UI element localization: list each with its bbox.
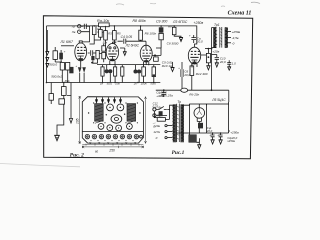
rectifier socket (large oval)	[111, 115, 122, 123]
resistor row R13	[101, 67, 104, 76]
wire R11 leads	[140, 26, 142, 41]
capacitor C3 electrolytic (dark)	[59, 53, 63, 60]
wire anode tube2	[106, 26, 117, 46]
capacitor dark right of tube1	[91, 56, 94, 60]
svg-text:Л1 6Ж7: Л1 6Ж7	[60, 40, 74, 44]
resistor row R14	[114, 67, 117, 76]
ground arrow Сф1	[211, 140, 215, 144]
fuse Пр	[157, 118, 165, 122]
wire lower left bus	[47, 82, 161, 84]
resistor R11v grid	[139, 30, 143, 40]
svg-text:-4,5в: -4,5в	[232, 36, 239, 40]
primary tap 0	[165, 137, 167, 139]
capacitor C4 coupling	[118, 39, 147, 50]
svg-text:R8 400в: R8 400в	[133, 19, 146, 23]
capacitor Сф2	[219, 133, 223, 140]
capacitor Cф50 below bus	[162, 90, 166, 97]
capacitor C1 (input coupling)	[81, 24, 90, 33]
power transformer winding bars (dark)	[173, 104, 177, 142]
svg-text:20,0: 20,0	[183, 73, 190, 77]
wire top supply bus	[47, 26, 197, 47]
primary tap 127в	[165, 131, 167, 133]
svg-text:Схема 11: Схема 11	[228, 11, 252, 17]
wire C9 chain	[160, 26, 162, 34]
svg-text:25к: 25к	[114, 82, 120, 86]
ground arrow pair left rail	[46, 30, 49, 67]
wire R1 leads	[90, 26, 95, 44]
junction heater bus	[163, 89, 165, 91]
screw holes transformer corners	[88, 102, 141, 123]
svg-text:+250в: +250в	[232, 30, 241, 34]
chassis mounting arrows top	[96, 97, 122, 102]
svg-text:+: +	[75, 64, 77, 68]
resistor R19 below C9	[159, 33, 163, 39]
power transformer core	[177, 104, 180, 142]
resistor row R15	[121, 67, 124, 76]
junction dot cluster	[91, 62, 93, 64]
wire R19 lead down	[156, 40, 161, 48]
ground arrow under C10	[215, 63, 219, 67]
svg-text:+: +	[64, 49, 66, 53]
junction right rail	[211, 48, 213, 50]
box divider lower	[59, 99, 65, 104]
junction dot R21 bottom	[208, 56, 210, 58]
tube Л1 top cap	[79, 41, 82, 43]
svg-text:1,0: 1,0	[232, 62, 236, 66]
electrolytic pair A (dark)	[105, 69, 109, 73]
capacitor dark tab on R17	[153, 74, 155, 76]
wire grid feed to tube1 cap	[82, 33, 89, 42]
dimension line bottom (250)	[82, 146, 144, 148]
wire R4 leads	[57, 83, 64, 131]
dimension line left (105)	[79, 96, 81, 143]
capacitor C5 electrolytic (dark)	[69, 67, 73, 73]
output transformer (chassis view, hatched)	[127, 104, 136, 122]
ground arrow right of tube2	[120, 48, 127, 55]
plus marks electrolytics	[64, 33, 220, 137]
resistor R10v	[113, 31, 117, 40]
tube socket A	[107, 104, 114, 111]
wire tap 0	[226, 42, 231, 44]
dial lamp (oval)	[181, 88, 188, 92]
svg-text:105: 105	[76, 118, 80, 124]
svg-text:Rд 20к: Rд 20к	[189, 92, 199, 96]
transformer Тр1 winding bars (dark)	[213, 27, 216, 47]
svg-text:Л3 6П3С: Л3 6П3С	[172, 20, 188, 24]
junction lower left bus	[46, 82, 48, 84]
svg-text:0,25: 0,25	[153, 105, 159, 109]
wire rectifier pins	[197, 118, 201, 122]
wire R20 leads	[174, 26, 181, 37]
junction bus x114	[114, 25, 116, 27]
svg-text:Гр: Гр	[72, 25, 76, 29]
tube Л2 (triode)	[106, 44, 118, 61]
junction bottom rail	[212, 132, 214, 134]
resistor R12 cathode	[190, 66, 194, 76]
switch body dark	[159, 111, 163, 116]
resistor R20 (screen dropper)	[172, 27, 176, 34]
wire choke leads	[190, 133, 200, 142]
power transformer secondary winding	[181, 105, 183, 141]
resistor R7 (plate load, horizontal on bus)	[99, 23, 110, 27]
faint marks right of chassis	[153, 123, 156, 128]
tube Л4 output (6П3С)	[188, 47, 200, 64]
wire C10 top	[212, 54, 217, 56]
svg-text:Пр 0,25а: Пр 0,25а	[161, 94, 174, 98]
junction bus x174	[173, 25, 175, 27]
frame (schematic sheet border)	[43, 16, 252, 159]
svg-text:+250в: +250в	[230, 130, 239, 134]
resistor R21 right of tube4	[206, 53, 210, 62]
junction node right of tube3	[154, 54, 156, 56]
resistor row R17	[152, 67, 156, 77]
chassis outline Рис.2	[82, 97, 143, 143]
transformer Тр1 core	[220, 27, 222, 48]
svg-text:50,0: 50,0	[107, 82, 113, 86]
svg-text:С9 300: С9 300	[156, 20, 167, 24]
wire grid line tube1	[61, 45, 74, 47]
input jack Зв	[78, 30, 81, 33]
svg-text:100к: 100к	[141, 82, 148, 86]
svg-text:R3: R3	[108, 31, 112, 35]
capacitor C9 electrolytic dark (top chain)	[159, 27, 164, 32]
wire into R4 top	[67, 83, 71, 96]
box small between tubes	[96, 50, 99, 58]
wire R21 leads	[201, 49, 209, 66]
wire primary top lead	[167, 105, 174, 119]
ground arrow Сф2	[219, 140, 223, 144]
svg-text:С4 0,05: С4 0,05	[121, 35, 133, 39]
svg-text:220в: 220в	[152, 124, 160, 128]
wire anode rail to transformer	[205, 48, 212, 50]
svg-text:R12 400: R12 400	[196, 72, 208, 76]
wire tube2 bottom to bus	[81, 63, 146, 65]
rectifier tube Л5	[194, 108, 205, 119]
wire tap +250в	[226, 31, 231, 33]
resistor R2a beside R1	[99, 29, 103, 37]
ground arrow under R21	[206, 66, 210, 70]
svg-text:Л2 6Н9С: Л2 6Н9С	[125, 43, 140, 47]
resistor R9 (vertical pair left)	[104, 31, 108, 40]
wire bottom rail	[176, 122, 229, 134]
svg-text:2к: 2к	[133, 82, 138, 86]
apron small holes	[91, 140, 134, 141]
tube socket E	[116, 125, 122, 131]
svg-text:Рис.1: Рис.1	[172, 150, 185, 156]
svg-text:20,0: 20,0	[219, 60, 226, 64]
tube socket D	[107, 125, 113, 131]
wire +250в out	[229, 130, 230, 132]
wire row resistor leads	[103, 65, 154, 83]
svg-text:250: 250	[108, 148, 115, 152]
capacitor C11 between tube1 and tube2	[88, 50, 96, 56]
apron socket row	[85, 134, 142, 138]
pencil smudge top	[116, 3, 225, 6]
tube Л2 pins	[110, 61, 115, 65]
socket spacing dimension row	[82, 144, 143, 146]
junction bus x161	[160, 25, 162, 27]
svg-text:50,0: 50,0	[150, 82, 156, 86]
wire screen node	[55, 47, 67, 74]
transformer Тр1 secondary winding	[225, 27, 227, 47]
svg-text:Рис. 2: Рис. 2	[70, 152, 84, 158]
resistor row R16	[142, 67, 146, 76]
wire mains to fuse	[154, 111, 169, 119]
chassis apron line	[82, 130, 143, 132]
tube socket C	[98, 124, 104, 130]
wire R5 leads	[50, 83, 52, 105]
svg-text:+: +	[178, 66, 180, 70]
svg-text:+: +	[209, 133, 211, 137]
filter choke (dark)	[189, 135, 197, 143]
svg-text:60: 60	[95, 149, 99, 153]
wire box to tube2	[92, 44, 104, 64]
svg-text:Rа-10к: Rа-10к	[97, 19, 109, 23]
ground arrow big bottom left	[54, 130, 60, 141]
resistor pair right column	[102, 46, 106, 51]
ground arrow x181	[179, 37, 183, 41]
ground arrow x71	[69, 95, 72, 123]
primary tap 220в	[165, 125, 167, 127]
pencil smudge top right	[251, 2, 260, 3]
svg-text:Rг: Rг	[168, 24, 172, 28]
power transformer (chassis view, hatched)	[95, 104, 104, 122]
tube Л3 pins	[144, 62, 149, 66]
svg-text:Тр: Тр	[177, 100, 181, 104]
svg-text:Зв: Зв	[72, 30, 76, 34]
tube socket B	[117, 104, 124, 111]
wire right rail	[211, 28, 213, 91]
power transformer primary winding	[173, 105, 175, 141]
ground arrow under rect loop	[197, 142, 201, 148]
capacitor C6	[181, 62, 183, 88]
wire R12 leads	[191, 63, 193, 91]
electrolytic pair under tube1 (dark triangles)	[78, 67, 86, 73]
capacitor C10	[215, 55, 219, 63]
svg-text:х450в: х450в	[226, 139, 235, 143]
electrolytic pair B (dark)	[133, 69, 137, 73]
wire heater bus right	[156, 90, 229, 102]
capacitor Сф1	[211, 133, 215, 140]
svg-text:С8 3000: С8 3000	[167, 42, 179, 46]
resistor R2 (screen divider)	[53, 51, 57, 60]
svg-text:+: +	[217, 133, 219, 137]
page shadow line bottom left	[0, 164, 80, 167]
svg-text:500,0х2: 500,0х2	[51, 75, 62, 79]
junction node above R21	[208, 48, 210, 50]
svg-text:500,0: 500,0	[49, 63, 57, 67]
capacitor C13 dark under rectifier	[198, 123, 203, 129]
wire tap -4,5в	[226, 37, 231, 39]
tube Л3 (triode)	[140, 45, 152, 62]
junction on bus at R1	[93, 25, 95, 27]
svg-text:20,0: 20,0	[196, 40, 203, 44]
ground arrow x172.5	[171, 62, 175, 72]
switch Вк	[156, 106, 167, 109]
svg-text:+20в: +20в	[212, 49, 219, 53]
wire cathode chain tube1	[62, 61, 84, 83]
dimension line right of chassis	[145, 97, 147, 144]
mains plug terminals	[153, 108, 156, 111]
tube socket F	[126, 124, 132, 130]
capacitor Ca 20,0	[191, 35, 196, 43]
wire primary leads	[212, 28, 217, 48]
svg-text:+: +	[189, 33, 191, 37]
capacitor C11b right	[227, 60, 231, 70]
junction dots lower bus	[63, 82, 155, 84]
junction bus x140	[140, 25, 142, 27]
resistor R5 small	[49, 94, 53, 101]
wire rectifier loop top	[181, 104, 206, 108]
resistor R1 (grid leak)	[92, 26, 96, 35]
svg-text:127в: 127в	[153, 130, 160, 134]
wire anode tube3 out	[152, 48, 161, 55]
wire rectifier loop sides	[190, 102, 229, 133]
resistor R3	[60, 62, 64, 70]
svg-text:Л5 5Ц4С: Л5 5Ц4С	[211, 98, 226, 102]
svg-text:Тр1: Тр1	[214, 23, 220, 27]
svg-text:R6 100к: R6 100к	[145, 32, 157, 36]
transformer Тр1 primary winding	[214, 27, 216, 47]
svg-text:+250в: +250в	[194, 21, 204, 25]
box right of tube3	[154, 57, 159, 61]
wire left rail	[46, 26, 48, 83]
resistor R3b	[66, 62, 70, 70]
tube Л4 pins	[192, 64, 197, 68]
input jack Гр	[78, 25, 81, 28]
wire mid bus	[97, 64, 160, 66]
resistor R4 decoupling	[62, 87, 67, 96]
svg-text:-0: -0	[232, 41, 235, 45]
wire R2a leads	[94, 27, 100, 41]
tube Л1 (pentode)	[75, 43, 87, 61]
